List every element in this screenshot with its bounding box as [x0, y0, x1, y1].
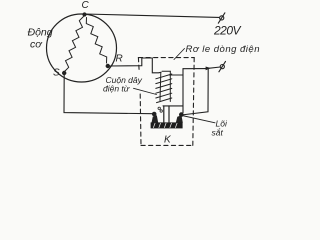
terminal C dot: [82, 12, 86, 16]
svg-text:Rơ le dòng điện: Rơ le dòng điện: [186, 44, 260, 55]
leader line to Ro le label: [174, 49, 185, 60]
svg-text:S: S: [53, 68, 60, 79]
terminal R dot: [106, 64, 110, 68]
supply terminal top (circle with slash): [218, 13, 225, 23]
start winding C-R (zigzag): [86, 18, 106, 64]
svg-text:C: C: [82, 0, 90, 11]
contact K right dot: [179, 112, 184, 117]
wire junction to coil top-right: [183, 68, 209, 70]
wire coil top-right: [170, 74, 184, 76]
contact spring small loops: [158, 107, 162, 112]
svg-text:220V: 220V: [213, 24, 241, 38]
svg-text:sắt: sắt: [212, 128, 224, 138]
contact K left dot: [152, 112, 157, 117]
svg-text:R: R: [116, 54, 123, 65]
svg-text:K: K: [164, 135, 172, 146]
wire junction down to contact K right: [181, 69, 208, 116]
relay dashed enclosure: [138, 58, 194, 146]
contact K right anvil: [176, 115, 183, 123]
supply terminal bottom (circle with slash): [219, 61, 226, 71]
junction node dot: [206, 67, 211, 71]
wire S down to contact K left: [64, 73, 153, 114]
svg-text:điện từ: điện từ: [103, 84, 130, 94]
wire C to supply terminal: [85, 14, 219, 17]
run winding C-S (zigzag): [65, 17, 84, 72]
svg-text:cơ: cơ: [30, 39, 43, 51]
svg-text:Động: Động: [28, 27, 53, 39]
wire R to coil (step): [108, 58, 161, 73]
motor M stator circle: [47, 14, 117, 82]
wire coil right rail down: [182, 69, 184, 113]
contact K bridge bar (iron armature): [151, 122, 183, 128]
leader line to Cuon day label: [134, 88, 157, 94]
terminal S dot: [62, 71, 66, 75]
relay coil (solenoid): [156, 71, 172, 102]
wire coil bottom bar: [163, 105, 183, 107]
leader line to Loi sat label: [182, 116, 215, 123]
contact K left anvil: [152, 115, 159, 123]
wire bottom terminal to junction: [209, 67, 221, 68]
relay core plunger posts: [164, 106, 169, 123]
